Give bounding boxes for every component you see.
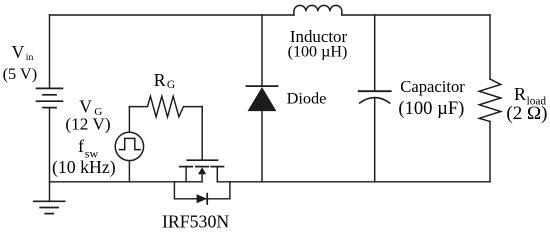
body diode D2 triangle [197, 194, 208, 203]
svg-text:(100 µH): (100 µH) [288, 44, 348, 61]
svg-text:Diode: Diode [287, 89, 327, 108]
transistor Q1 source bar [180, 166, 192, 168]
transistor Q1 gate plate [187, 159, 217, 161]
svg-text:in: in [26, 52, 34, 63]
wire pulse source top lead [128, 107, 130, 133]
wire pulse source bottom lead [128, 161, 130, 182]
wire source drop [185, 167, 187, 182]
svg-text:IRF530N: IRF530N [162, 212, 229, 232]
inductor L1 coil [294, 5, 342, 15]
resistor R_load zigzag [479, 79, 501, 122]
diode D1 branch top wire [261, 15, 263, 86]
battery V_in plates [37, 88, 63, 107]
wire bottom rail right segment (drain side) [217, 181, 490, 183]
wire top rail right segment [342, 14, 490, 16]
svg-text:Capacitor: Capacitor [400, 77, 465, 96]
svg-text:(5 V): (5 V) [3, 64, 38, 83]
svg-text:(2 Ω): (2 Ω) [506, 103, 547, 124]
ground symbol [34, 201, 65, 213]
transistor Q1 drain bar [211, 166, 223, 168]
svg-text:f: f [78, 136, 84, 156]
wire left rail from top to battery [49, 15, 51, 88]
transistor Q1 body bar [196, 166, 208, 168]
diode D1 bottom wire [261, 111, 263, 182]
svg-text:(100 µF): (100 µF) [398, 98, 464, 119]
wire gate lead down [201, 107, 203, 161]
resistor R_G leads and zigzag [129, 96, 202, 117]
body diode loop wire [174, 182, 230, 199]
capacitor C1 curved plate [360, 98, 390, 103]
wire top rail left segment [50, 14, 294, 16]
capacitor C1 bottom wire [374, 98, 376, 182]
capacitor C1 top plate [359, 90, 391, 92]
svg-text:G: G [167, 79, 175, 91]
diode D1 cathode bar [247, 85, 278, 87]
wire right rail bottom [489, 122, 491, 182]
diode D1 triangle [248, 87, 277, 111]
svg-text:R: R [154, 70, 166, 90]
wire right rail top [489, 15, 491, 79]
wire body drop [201, 171, 203, 182]
svg-text:(12 V): (12 V) [65, 115, 110, 134]
wire drain drop [216, 167, 218, 182]
svg-text:R: R [514, 84, 526, 104]
svg-text:V: V [12, 42, 25, 62]
transistor Q1 body arrow [198, 167, 206, 174]
wire bottom rail left segment (source side) [50, 181, 203, 183]
pulse source square-wave glyph [119, 138, 140, 149]
pulse source VG circle [115, 132, 143, 160]
svg-text:(10 kHz): (10 kHz) [52, 157, 116, 178]
body diode D2 cathode bar [206, 194, 208, 204]
capacitor C1 top wire [374, 15, 376, 91]
wire left rail from battery to ground [49, 108, 51, 202]
